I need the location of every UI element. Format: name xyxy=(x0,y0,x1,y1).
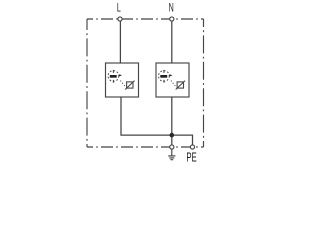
svg-text:L: L xyxy=(117,2,121,15)
svg-text:N: N xyxy=(169,2,174,15)
svg-text:PE: PE xyxy=(186,152,196,164)
